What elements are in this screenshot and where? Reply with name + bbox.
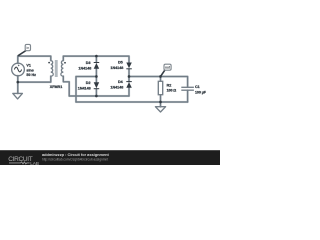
- capacitor C1 plates: [181, 87, 194, 90]
- wire left branch top: [95, 56, 97, 62]
- svg-text:1N4148: 1N4148: [110, 86, 123, 90]
- voltage source V1 circle: [12, 63, 25, 76]
- node flag "in": [18, 44, 31, 55]
- svg-text:LAB: LAB: [30, 161, 39, 165]
- wire secondary bottom jog to bottom rail: [63, 76, 69, 96]
- diode D4: [126, 81, 132, 88]
- svg-text:1N4148: 1N4148: [78, 86, 91, 90]
- wire bridge bottom rail: [69, 95, 129, 97]
- svg-text:R2: R2: [167, 84, 172, 88]
- wire V1 bottom stub to ground: [17, 76, 19, 94]
- svg-text:CIRCUIT: CIRCUIT: [8, 156, 33, 163]
- transformer XFMR1 secondary coil: [61, 61, 63, 77]
- V1 plus polarity mark: [18, 65, 20, 67]
- wire halo layer: [18, 56, 188, 107]
- svg-text:http://circuitlab.com/c/zqh64b: http://circuitlab.com/c/zqh64b/circuit-a…: [42, 157, 108, 161]
- junction left branch middle node (V-): [95, 75, 98, 78]
- svg-text:50 Hz: 50 Hz: [26, 73, 36, 77]
- svg-text:100 µF: 100 µF: [195, 90, 207, 94]
- svg-text:V1: V1: [26, 64, 31, 68]
- svg-text:1N4148: 1N4148: [78, 67, 91, 71]
- wire right branch D4 to bottom rail: [128, 88, 130, 96]
- svg-text:XFMR1: XFMR1: [50, 85, 63, 89]
- wire R2 bottom lead: [160, 95, 162, 107]
- ground (V1): [13, 93, 23, 99]
- wire out rail to R2 and C1: [129, 77, 188, 88]
- svg-text:D5: D5: [118, 61, 123, 65]
- wire V1 bottom to primary bottom: [18, 76, 51, 82]
- labels: [26, 61, 206, 95]
- svg-text:C1: C1: [195, 85, 200, 89]
- footer bar: [0, 150, 220, 165]
- wire left middle node to V- drop: [76, 77, 96, 103]
- wire top rail left V1 to XFMR1 primary: [18, 56, 51, 63]
- diode D3: [94, 62, 100, 69]
- node flag "out": [161, 64, 171, 76]
- junction top rail / D3 cathode: [95, 55, 98, 58]
- svg-text:out: out: [165, 65, 171, 69]
- junction V1 bottom node: [16, 81, 19, 84]
- wire secondary top to bridge top rail: [63, 56, 129, 62]
- svg-text:D3: D3: [86, 61, 91, 65]
- wire left branch D2 to bottom rail: [95, 89, 97, 96]
- transformer core: [55, 60, 58, 77]
- wire R2 top lead: [160, 77, 162, 82]
- svg-text:100 Ω: 100 Ω: [167, 89, 177, 93]
- wire left branch D3 to D2: [95, 69, 97, 83]
- wire right branch D5 to D4: [128, 69, 130, 81]
- ground (R2): [155, 107, 165, 112]
- wire lower ground bus: [76, 101, 188, 103]
- polarity dot primary: [48, 62, 50, 64]
- junction out rail / R2 top: [159, 75, 162, 78]
- footer CircuitLab logo: [8, 156, 39, 167]
- polarity dot secondary: [64, 62, 66, 64]
- svg-text:sine: sine: [26, 68, 33, 72]
- svg-text:1N4148: 1N4148: [110, 66, 123, 70]
- wire C1 bottom lead: [187, 90, 189, 102]
- diode D2: [94, 82, 100, 89]
- svg-text:D2: D2: [86, 81, 91, 85]
- diode D5: [126, 63, 132, 70]
- resistor R2 box: [158, 81, 162, 94]
- V1 sine wave: [14, 67, 21, 72]
- svg-text:in: in: [26, 46, 29, 50]
- junction left branch bottom rail: [95, 95, 98, 98]
- junction right branch middle node (out): [128, 75, 131, 78]
- junction ground bus / R2 bottom: [159, 101, 162, 104]
- svg-text:addminzzzp : Circuit for assig: addminzzzp : Circuit for assignment: [42, 152, 109, 157]
- transformer XFMR1 primary coil: [51, 61, 53, 77]
